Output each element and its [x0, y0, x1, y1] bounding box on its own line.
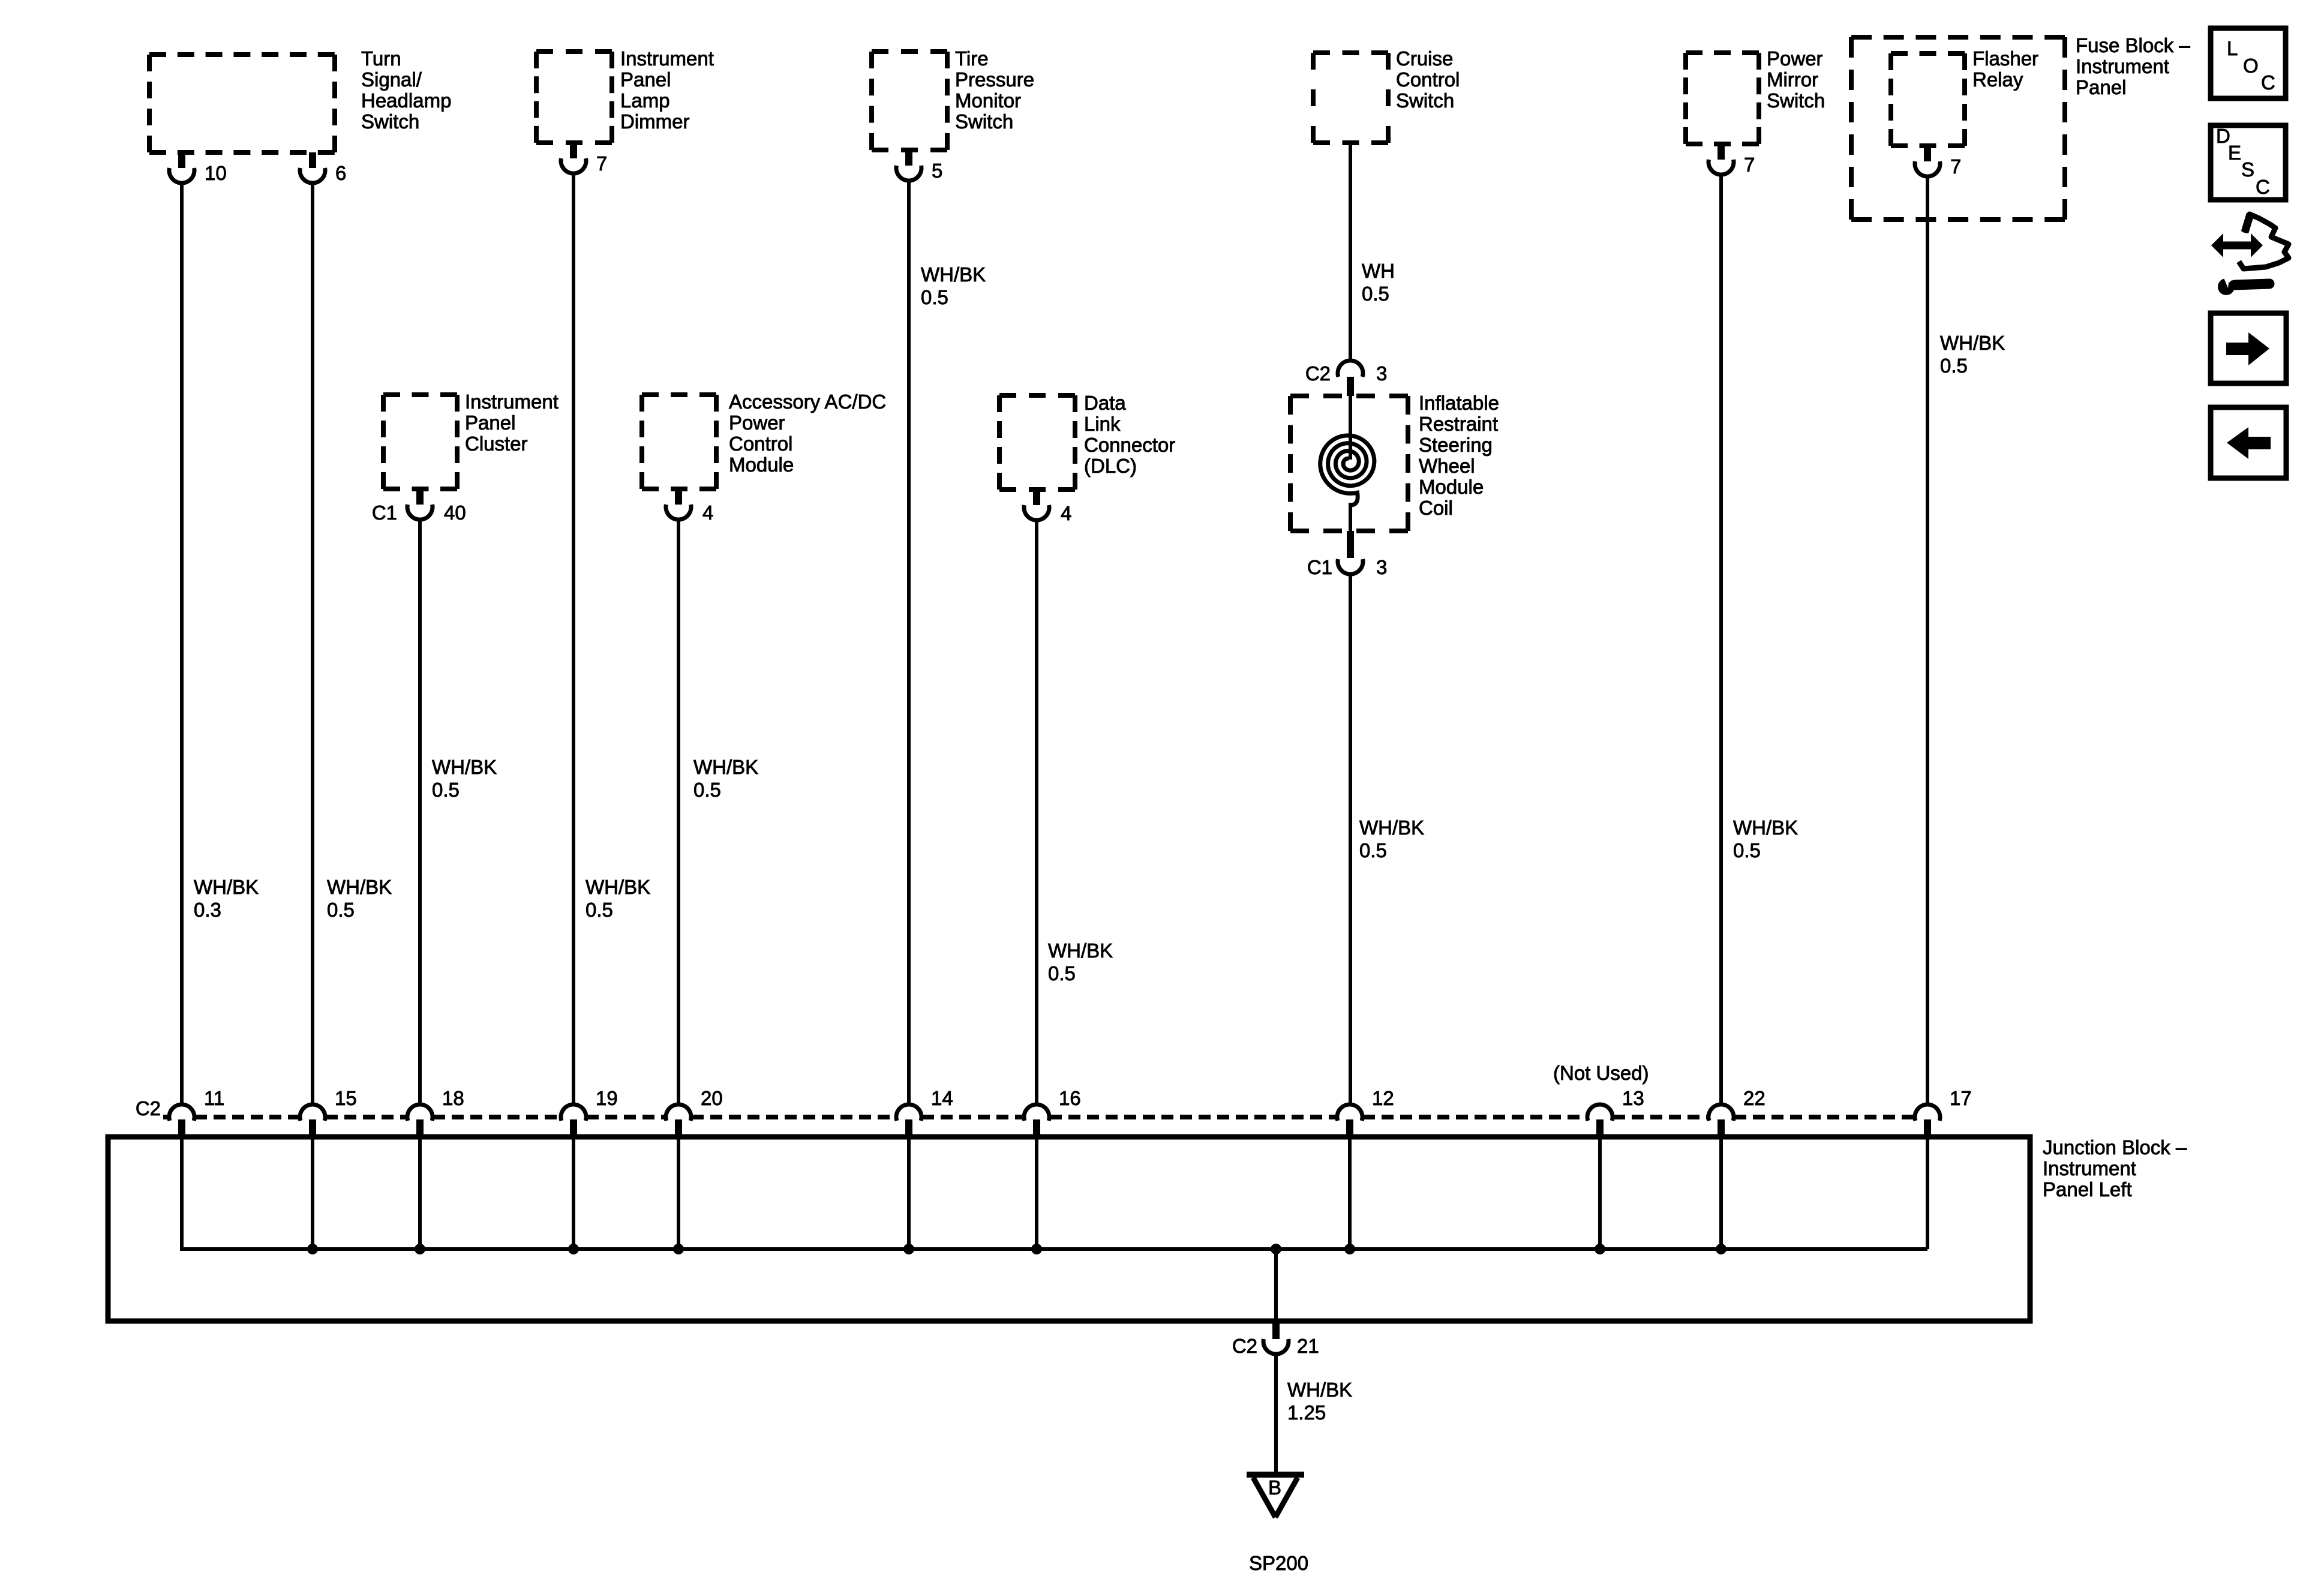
svg-text:7: 7 — [596, 152, 607, 175]
svg-text:Module: Module — [729, 454, 794, 476]
svg-text:Cluster: Cluster — [465, 433, 528, 455]
connector C1 pin 3 below coil — [1307, 531, 1388, 578]
wire WH/BK 0.5 from Data Link Connector pin 4 to junction pin 16 — [1035, 519, 1038, 1104]
svg-text:WH/BK: WH/BK — [1287, 1379, 1352, 1401]
junction connector pin 19 arc and stub — [561, 1087, 618, 1137]
svg-text:SP200: SP200 — [1249, 1552, 1308, 1573]
junction dot at x=1728 on bus — [1031, 1244, 1042, 1254]
connector pin 7 of Instrument Panel Lamp Dimmer — [561, 143, 607, 175]
svg-text:Signal/: Signal/ — [361, 68, 422, 91]
svg-text:Switch: Switch — [1396, 89, 1454, 112]
svg-text:WH/BK: WH/BK — [921, 263, 986, 286]
junction dot at x=2250 on bus — [1344, 1244, 1355, 1254]
label Instrument Panel Cluster — [465, 391, 559, 455]
wire label WH/BK 0.5 (tire pressure wire) — [921, 263, 986, 308]
label SP200 — [1249, 1552, 1308, 1574]
connector C2 pin 21 below junction block — [1232, 1323, 1319, 1357]
svg-text:Panel: Panel — [2076, 76, 2126, 98]
junction dot at x=1131 on bus — [673, 1244, 684, 1254]
svg-text:B: B — [1268, 1476, 1281, 1499]
svg-text:Tire: Tire — [955, 47, 989, 70]
component Fuse Block - Instrument Panel outer dashed box — [1851, 37, 2065, 220]
svg-text:Headlamp: Headlamp — [361, 89, 451, 112]
svg-text:0.3: 0.3 — [194, 899, 221, 921]
svg-text:Restraint: Restraint — [1419, 413, 1498, 435]
svg-text:0.5: 0.5 — [327, 899, 355, 921]
svg-text:Control: Control — [729, 433, 792, 455]
svg-text:0.5: 0.5 — [585, 899, 613, 921]
svg-text:Power: Power — [1767, 47, 1823, 70]
svg-text:0.5: 0.5 — [921, 286, 948, 308]
svg-text:16: 16 — [1059, 1087, 1081, 1109]
label C2 at junction connector line — [136, 1097, 161, 1119]
svg-text:3: 3 — [1376, 362, 1387, 385]
component Flasher Relay dashed box — [1891, 53, 1965, 146]
connector pin 10 of Turn Signal/Headlamp Switch — [169, 152, 227, 184]
junction dot at x=2127 on bus — [1271, 1244, 1281, 1254]
label Inflatable Restraint Steering Wheel Module Coil — [1419, 392, 1499, 519]
junction dot at x=1515 on bus — [903, 1244, 914, 1254]
svg-text:(DLC): (DLC) — [1084, 455, 1137, 477]
label Data Link Connector (DLC) — [1084, 392, 1175, 477]
junction connector pin 20 arc and stub — [666, 1087, 723, 1137]
svg-text:Wheel: Wheel — [1419, 455, 1475, 477]
junction connector pin 13 arc and stub — [1587, 1087, 1644, 1137]
label Fuse Block - Instrument Panel — [2076, 34, 2190, 98]
svg-text:WH: WH — [1362, 260, 1395, 282]
svg-text:Instrument: Instrument — [2043, 1157, 2136, 1179]
svg-text:4: 4 — [1061, 502, 1071, 524]
svg-text:0.5: 0.5 — [693, 779, 721, 801]
ground symbol B (SP200) — [1247, 1475, 1304, 1517]
junction dot at x=521 on bus — [307, 1244, 318, 1254]
svg-text:Flasher: Flasher — [1972, 47, 2038, 70]
junction dot at x=2869 on bus — [1716, 1244, 1727, 1254]
svg-text:7: 7 — [1950, 155, 1961, 178]
svg-text:WH/BK: WH/BK — [693, 756, 758, 778]
svg-text:C1: C1 — [1307, 556, 1332, 578]
svg-text:Control: Control — [1396, 68, 1460, 91]
svg-text:Inflatable: Inflatable — [1419, 392, 1499, 414]
component Instrument Panel Lamp Dimmer dashed box — [536, 52, 612, 143]
svg-text:C2: C2 — [1305, 362, 1331, 385]
svg-text:Coil: Coil — [1419, 497, 1453, 519]
svg-text:Pressure: Pressure — [955, 68, 1034, 91]
svg-text:C: C — [2256, 176, 2270, 198]
svg-text:15: 15 — [335, 1087, 357, 1109]
svg-text:Panel: Panel — [465, 412, 515, 434]
svg-text:Mirror: Mirror — [1767, 68, 1818, 91]
svg-text:Data: Data — [1084, 392, 1126, 414]
svg-text:21: 21 — [1297, 1335, 1319, 1357]
wire inside junction block from pin 22 to ground bus — [1719, 1137, 1723, 1249]
svg-text:4: 4 — [702, 502, 713, 524]
svg-text:WH/BK: WH/BK — [194, 876, 259, 898]
svg-text:(Not Used): (Not Used) — [1553, 1062, 1649, 1084]
svg-text:Fuse Block –: Fuse Block – — [2076, 34, 2190, 56]
svg-text:22: 22 — [1743, 1087, 1765, 1109]
svg-text:C2: C2 — [136, 1097, 161, 1119]
junction connector pin 14 arc and stub — [896, 1087, 953, 1137]
wire inside junction block from pin 12 to ground bus — [1348, 1137, 1352, 1249]
svg-text:Cruise: Cruise — [1396, 47, 1453, 70]
wire inside junction block from pin 16 to ground bus — [1035, 1137, 1038, 1249]
connector pin 4 of Data Link Connector — [1024, 490, 1071, 524]
svg-text:3: 3 — [1376, 556, 1387, 578]
label Cruise Control Switch — [1396, 47, 1460, 112]
wire inside junction block from pin 18 to ground bus — [418, 1137, 422, 1249]
wire WH/BK 0.5 from Power Mirror Switch pin 7 to junction pin 22 — [1719, 173, 1723, 1104]
connector C1 pin 40 of Instrument Panel Cluster — [372, 489, 466, 524]
svg-text:WH/BK: WH/BK — [327, 876, 392, 898]
svg-text:Junction Block –: Junction Block – — [2043, 1136, 2187, 1158]
svg-text:Instrument: Instrument — [465, 391, 559, 413]
wire inside junction block from pin 17 to ground bus — [1926, 1137, 1929, 1249]
wire inside junction block from pin 15 to ground bus — [311, 1137, 314, 1249]
svg-text:Turn: Turn — [361, 47, 401, 70]
svg-text:WH/BK: WH/BK — [432, 756, 497, 778]
svg-text:0.5: 0.5 — [1362, 283, 1389, 305]
junction connector pin 12 arc and stub — [1337, 1087, 1394, 1137]
wire label WH/BK 0.5 (accessory wire) — [693, 756, 758, 801]
svg-text:C2: C2 — [1232, 1335, 1257, 1357]
wire inside junction block from pin 14 to ground bus — [907, 1137, 911, 1249]
coil spiral of Inflatable Restraint Steering Wheel Module Coil — [1320, 396, 1374, 531]
icon box DESC — [2211, 125, 2286, 200]
svg-text:C: C — [2261, 71, 2275, 94]
svg-text:WH/BK: WH/BK — [1048, 939, 1113, 962]
svg-text:WH/BK: WH/BK — [1940, 332, 2005, 354]
wire label WH 0.5 (cruise wire) — [1362, 260, 1395, 305]
svg-text:10: 10 — [205, 162, 227, 184]
wire WH/BK 0.5 from Turn Signal pin 6 to junction pin 15 — [311, 182, 314, 1104]
connector pin 7 of Power Mirror Switch — [1709, 144, 1755, 176]
wire inside junction block from pin 13 to ground bus — [1598, 1137, 1602, 1249]
label (Not Used) for junction pin 13 — [1553, 1062, 1649, 1084]
svg-text:Connector: Connector — [1084, 434, 1175, 456]
junction connector pin 22 arc and stub — [1709, 1087, 1765, 1137]
wire label WH/BK 0.5 (mirror wire) — [1733, 816, 1798, 861]
svg-text:13: 13 — [1622, 1087, 1644, 1109]
svg-text:Module: Module — [1419, 476, 1484, 498]
svg-text:Dimmer: Dimmer — [620, 110, 689, 133]
svg-text:WH/BK: WH/BK — [1733, 816, 1798, 839]
wire WH/BK 0.5 from Accessory AC/DC Power Control Module pin 4 to junction pin 20 — [677, 518, 680, 1104]
svg-text:40: 40 — [444, 502, 466, 524]
wire label WH/BK 1.25 — [1287, 1379, 1352, 1424]
svg-text:E: E — [2228, 142, 2241, 164]
label Instrument Panel Lamp Dimmer — [620, 47, 714, 133]
svg-text:Switch: Switch — [1767, 89, 1825, 112]
svg-text:20: 20 — [701, 1087, 723, 1109]
connector C2 pin 3 above coil — [1305, 361, 1388, 396]
junction block solid rectangle — [108, 1137, 2030, 1321]
component Accessory AC/DC Power Control Module dashed box — [642, 395, 716, 489]
wire label WH/BK 0.5 (dimmer wire) — [585, 876, 650, 921]
component Instrument Panel Cluster dashed box — [383, 395, 457, 489]
svg-text:6: 6 — [335, 162, 346, 184]
svg-text:Power: Power — [729, 412, 785, 434]
svg-text:7: 7 — [1744, 154, 1755, 176]
svg-text:L: L — [2227, 37, 2238, 59]
svg-text:0.5: 0.5 — [1940, 355, 1968, 377]
svg-text:Link: Link — [1084, 413, 1121, 435]
connector pin 4 of Accessory AC/DC Power Control Module — [666, 489, 713, 524]
svg-text:0.5: 0.5 — [432, 779, 460, 801]
svg-text:Lamp: Lamp — [620, 89, 670, 112]
connector pin 6 of Turn Signal/Headlamp Switch — [300, 152, 346, 184]
wire WH 0.5 from Cruise Control Switch to coil C2 pin 3 — [1349, 143, 1352, 360]
wire label WH/BK 0.5 (DLC wire) — [1048, 939, 1113, 984]
wire label WH/BK 0.5 (pin 6 wire) — [327, 876, 392, 921]
svg-text:Panel: Panel — [620, 68, 671, 91]
junction connector pin 17 arc and stub — [1915, 1087, 1972, 1137]
svg-text:0.5: 0.5 — [1733, 839, 1761, 861]
junction connector pin 18 arc and stub — [407, 1087, 464, 1137]
junction dot at x=2667 on bus — [1595, 1244, 1605, 1254]
svg-text:Monitor: Monitor — [955, 89, 1021, 112]
ground bus line inside junction block — [180, 1247, 1927, 1251]
wire label WH/BK 0.5 (cluster wire) — [432, 756, 497, 801]
svg-text:11: 11 — [204, 1087, 224, 1109]
wire label WH/BK 0.3 — [194, 876, 259, 921]
wire inside junction block from pin 11 to ground bus — [180, 1137, 184, 1249]
svg-text:WH/BK: WH/BK — [1359, 816, 1424, 839]
svg-text:S: S — [2241, 158, 2254, 181]
svg-text:WH/BK: WH/BK — [585, 876, 650, 898]
svg-text:Relay: Relay — [1972, 68, 2023, 91]
component Tire Pressure Monitor Switch dashed box — [872, 52, 947, 150]
icon box LOC — [2211, 28, 2286, 98]
svg-text:C1: C1 — [372, 502, 397, 524]
wire WH/BK 1.25 from C2 21 to ground SP200 — [1274, 1353, 1278, 1473]
wire inside junction block from pin 19 to ground bus — [572, 1137, 575, 1249]
svg-text:O: O — [2243, 55, 2259, 77]
wire inside junction block from pin 20 to ground bus — [677, 1137, 680, 1249]
wire WH/BK 0.5 from coil C1 pin 3 to junction pin 12 — [1349, 573, 1352, 1104]
svg-text:1.25: 1.25 — [1287, 1401, 1326, 1424]
svg-text:Instrument: Instrument — [2076, 55, 2169, 77]
icon box left arrow — [2211, 407, 2286, 478]
wire WH/BK 0.5 from Tire Pressure Monitor Switch pin 5 to junction pin 14 — [907, 179, 911, 1104]
svg-text:0.5: 0.5 — [1048, 962, 1076, 984]
svg-text:Panel Left: Panel Left — [2043, 1178, 2132, 1200]
component Cruise Control Switch dashed box — [1313, 53, 1388, 143]
component Turn Signal/Headlamp Switch dashed box — [149, 55, 335, 152]
svg-text:Instrument: Instrument — [620, 47, 714, 70]
connector pin 7 of Flasher Relay — [1915, 146, 1961, 178]
svg-text:19: 19 — [596, 1087, 618, 1109]
wire from bus junction down to C2 pin 21 — [1274, 1249, 1278, 1321]
label Turn Signal/Headlamp Switch — [361, 47, 451, 133]
junction connector pin 15 arc and stub — [300, 1087, 357, 1137]
component Data Link Connector (DLC) dashed box — [999, 395, 1075, 490]
svg-text:Accessory AC/DC: Accessory AC/DC — [729, 391, 886, 413]
component Inflatable Restraint Steering Wheel Module Coil dashed box — [1290, 396, 1408, 531]
wire WH/BK 0.5 from Instrument Panel Cluster C1 40 to junction pin 18 — [418, 518, 422, 1104]
label Junction Block - Instrument Panel Left — [2043, 1136, 2187, 1200]
label Flasher Relay — [1972, 47, 2038, 91]
junction connector pin 16 arc and stub — [1024, 1087, 1081, 1137]
svg-text:12: 12 — [1372, 1087, 1394, 1109]
label Tire Pressure Monitor Switch — [955, 47, 1034, 133]
svg-text:17: 17 — [1950, 1087, 1972, 1109]
icon box right arrow — [2211, 313, 2286, 383]
junction connector pin 11 arc and stub — [169, 1087, 224, 1137]
label Accessory AC/DC Power Control Module — [729, 391, 886, 476]
svg-text:14: 14 — [931, 1087, 953, 1109]
svg-text:18: 18 — [442, 1087, 464, 1109]
junction block C2 connector dashed line — [163, 1115, 1914, 1119]
svg-text:Switch: Switch — [361, 110, 419, 133]
wire WH/BK 0.5 from Instrument Panel Lamp Dimmer pin 7 to junction pin 19 — [572, 172, 575, 1104]
icon connector service (double arrow, connector outline, wrench) — [2211, 214, 2289, 295]
junction dot at x=700 on bus — [415, 1244, 425, 1254]
wire WH/BK 0.3 from Turn Signal pin 10 to junction pin 11 — [180, 182, 184, 1104]
svg-text:5: 5 — [932, 160, 942, 182]
wire label WH/BK 0.5 (flasher wire) — [1940, 332, 2005, 377]
wire WH/BK 0.5 from Flasher Relay pin 7 to junction pin 17 — [1926, 175, 1929, 1104]
wire label WH/BK 0.5 (coil wire) — [1359, 816, 1424, 861]
component Power Mirror Switch dashed box — [1686, 53, 1759, 144]
junction dot at x=956 on bus — [568, 1244, 579, 1254]
svg-text:0.5: 0.5 — [1359, 839, 1387, 861]
label Power Mirror Switch — [1767, 47, 1825, 112]
svg-text:Switch: Switch — [955, 110, 1013, 133]
svg-text:Steering: Steering — [1419, 434, 1493, 456]
connector pin 5 of Tire Pressure Monitor Switch — [896, 150, 942, 182]
